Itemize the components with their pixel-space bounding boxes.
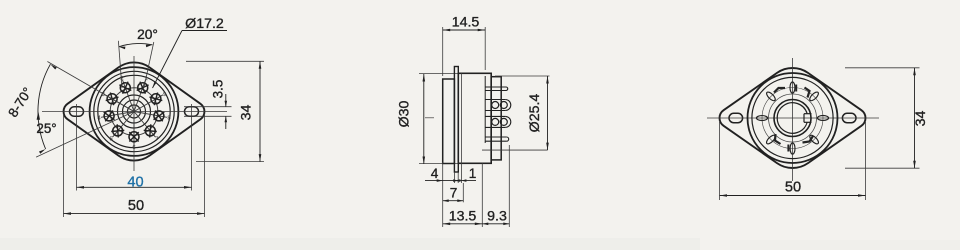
view3 slot ring circle [762, 88, 823, 149]
view3 contact slot at 270 deg [756, 116, 767, 121]
view1 pin circle Ø17.2 [110, 88, 158, 136]
svg-text:50: 50 [785, 179, 801, 195]
svg-text:6: 6 [132, 145, 135, 151]
view1 34 ext lines [186, 60, 264, 62]
view1 pin contact at -20 deg [119, 80, 134, 112]
view1 pin contact at 60 deg [134, 93, 163, 112]
paper smudge bottom band [0, 238, 700, 250]
view2 14.5 dim line [443, 29, 486, 31]
view2 body Ø30 section [458, 73, 491, 163]
view2 Ø30 ext lines [419, 73, 458, 75]
svg-text:20°: 20° [137, 27, 158, 42]
view1 pin contact at 300 deg [105, 93, 134, 112]
svg-text:4: 4 [97, 116, 100, 122]
view3 contact slot at 315 deg [765, 91, 776, 102]
view1 Ø17.2 leader [182, 30, 227, 32]
svg-text:4: 4 [431, 166, 439, 181]
view3 34 dim line [914, 68, 916, 168]
view1 inner ring 1 [128, 105, 141, 118]
view2 top pin prong [485, 86, 506, 88]
view1 34 dim line [259, 61, 261, 161]
svg-text:7: 7 [155, 137, 158, 143]
view1 pin contact at 100 deg [134, 111, 167, 122]
view2 solder lug 1 [485, 99, 505, 101]
view1 flange outline [64, 62, 205, 160]
svg-text:34: 34 [913, 111, 929, 127]
view2 Ø30 dim line [423, 74, 425, 164]
svg-text:34: 34 [239, 105, 255, 121]
view1 circle Ø25.4 [98, 75, 170, 147]
view2 7 dim line [443, 200, 464, 202]
view3 contact clips (dark marks) [805, 88, 810, 98]
view2 ext line a (front face) [442, 162, 444, 227]
view3 contact slot at 45 deg [808, 91, 819, 102]
view1 20deg right extension line [144, 42, 154, 86]
svg-text:40: 40 [127, 174, 143, 190]
view2 body hub section [491, 77, 501, 160]
view2 ext line e (pin tips) [508, 145, 510, 227]
view3 contact slot at 225 deg [765, 134, 776, 145]
view3 key notch [804, 113, 812, 115]
view2 Ø25.4 dim line [547, 76, 549, 150]
svg-text:8: 8 [167, 116, 170, 122]
view1 pin numbers [97, 76, 170, 151]
view2 front spigot [443, 79, 455, 164]
view1 left mounting slot hole [70, 107, 84, 117]
view1 pin contact at 140 deg [134, 112, 157, 138]
view3 50 ext lines [719, 122, 721, 200]
view3 center hole inner circle with key gap [777, 103, 807, 134]
svg-text:9.3: 9.3 [487, 208, 507, 224]
view2 flange plate [454, 67, 458, 173]
view2 14.5 ext lines [442, 27, 444, 76]
view1 inner ring 2 [123, 100, 146, 123]
view1 inner ring 3 [118, 95, 151, 128]
view2 body seam line [461, 73, 463, 163]
view1 right mounting slot hole [185, 107, 199, 117]
view1 50 ext lines [63, 114, 65, 217]
view2 13.5 dim line [443, 223, 483, 225]
view1 3.5 dim line [225, 94, 227, 107]
view2 4/1 dim line [425, 180, 476, 182]
svg-text:Ø30: Ø30 [397, 100, 413, 127]
view1 50 dim line [64, 213, 205, 215]
view2 lug base edge line [484, 76, 486, 143]
view3 contact slot at 180 deg [790, 143, 795, 154]
view2 ext line b (plate front) [453, 172, 455, 183]
view2 ext line b3 (1 dim right) [460, 163, 462, 183]
svg-text:Ø25.4: Ø25.4 [527, 94, 543, 133]
svg-text:Ø17.2: Ø17.2 [185, 16, 224, 32]
view3 body outer circle [748, 73, 838, 163]
view3 contact slot at 90 deg [817, 116, 828, 121]
view1 vertical center line [133, 56, 135, 171]
view1 horizontal center line [42, 111, 227, 113]
view3 flange outline [720, 68, 866, 168]
view2 bottom pin prong [485, 136, 506, 138]
view2 ext line c (7 end) [462, 183, 464, 202]
view2 9.3 dim line [482, 223, 509, 225]
view3 contact slot at 135 deg [808, 134, 819, 145]
view1 body rim inner circle [94, 71, 174, 151]
view3 34 ext lines [845, 67, 920, 69]
view1 body outer circle Ø30 [90, 67, 179, 156]
view3 body rim circle [752, 77, 833, 158]
view2 Ø25.4 ext lines [495, 75, 550, 77]
svg-text:13.5: 13.5 [449, 208, 477, 224]
view3 left mounting slot hole [729, 113, 743, 122]
view3 50 dim line [720, 195, 866, 197]
svg-text:5: 5 [110, 137, 113, 143]
view1 40 dim line [77, 186, 192, 188]
view3 horizontal center line [707, 117, 879, 119]
view1 20deg dimension arc [119, 43, 153, 46]
view3 vertical center line [792, 58, 794, 181]
svg-text:9: 9 [163, 92, 166, 98]
view1 3.5 ext lines [184, 106, 232, 108]
view2 ext line b2 (1 dim left) [457, 172, 459, 183]
svg-text:25°: 25° [36, 121, 56, 136]
view1 8-70deg dimension arc [38, 64, 50, 149]
view1 25deg line [36, 112, 134, 158]
view1 25deg arc arrow [37, 111, 40, 120]
view2 ext line d (lug base) [481, 163, 483, 227]
view1 20deg left extension line [118, 41, 122, 88]
svg-text:1: 1 [469, 166, 477, 181]
svg-text:3.5: 3.5 [211, 80, 226, 99]
view3 inner circle [769, 94, 817, 142]
view1 radial line extended (pin 3 direction) [47, 62, 134, 112]
view1 pin contact at 260 deg [101, 111, 134, 122]
svg-text:7: 7 [450, 186, 458, 201]
svg-text:50: 50 [128, 198, 144, 214]
view1 pin contact at 180 deg [129, 112, 139, 146]
view3 contact slot at 0 deg [790, 82, 795, 93]
view2 solder lug 2 [485, 115, 505, 117]
view1 pin contact at 20 deg [134, 80, 149, 112]
view3 center hole outer circle [774, 100, 811, 137]
view1 pin contact at 220 deg [111, 112, 134, 138]
view2 center tick [425, 117, 434, 119]
view3 right mounting slot hole [842, 113, 856, 122]
view1 40 ext lines [76, 104, 78, 191]
svg-text:14.5: 14.5 [452, 14, 480, 30]
